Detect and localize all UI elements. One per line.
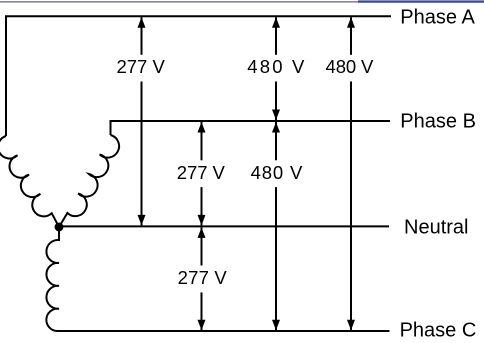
svg-text:277 V: 277 V [178, 267, 228, 288]
svg-text:277 V: 277 V [117, 56, 166, 77]
svg-text:480 V: 480 V [326, 56, 374, 77]
svg-text:480 V: 480 V [251, 162, 303, 183]
svg-text:Phase A: Phase A [400, 6, 475, 28]
svg-text:277 V: 277 V [177, 162, 226, 183]
svg-text:Phase C: Phase C [400, 320, 477, 342]
svg-text:480 V: 480 V [247, 56, 305, 77]
svg-text:Neutral: Neutral [404, 216, 468, 238]
svg-text:Phase B: Phase B [400, 110, 476, 132]
